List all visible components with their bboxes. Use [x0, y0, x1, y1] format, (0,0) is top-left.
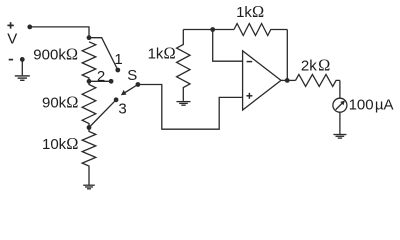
svg-text:1kΩ: 1kΩ — [148, 44, 176, 63]
switch contact 2 — [109, 79, 114, 84]
wire node mid2 to contact 3 — [89, 100, 116, 128]
svg-text:1kΩ: 1kΩ — [236, 2, 264, 21]
svg-text:S: S — [127, 67, 137, 84]
wire - terminal to ground — [21, 59, 23, 75]
wire + terminal to divider top — [30, 27, 89, 38]
svg-text:2: 2 — [97, 68, 105, 85]
resistor R1 900k — [82, 42, 96, 82]
node - terminal — [20, 57, 25, 62]
ground V source — [15, 75, 30, 77]
ground R4 — [177, 101, 191, 103]
node divider mid1 — [87, 79, 92, 84]
wire S to op-amp + input — [138, 85, 243, 130]
svg-text:3: 3 — [118, 101, 126, 118]
wire node top to contact 1 — [89, 38, 118, 70]
label + terminal — [7, 24, 13, 26]
svg-text:900kΩ: 900kΩ — [33, 45, 78, 64]
resistor R3 10k — [82, 128, 96, 185]
svg-text:V: V — [7, 30, 17, 47]
resistor R5 1k feedback — [234, 24, 287, 36]
svg-text:90kΩ: 90kΩ — [42, 92, 78, 111]
wire node to op-amp - input — [213, 30, 243, 62]
resistor R4 1k shunt — [177, 30, 190, 101]
svg-text:1: 1 — [114, 51, 122, 68]
label - terminal — [9, 59, 13, 61]
svg-text:100 µA: 100 µA — [349, 97, 394, 114]
wire op-amp output — [281, 79, 296, 81]
switch contact 3 — [114, 97, 119, 102]
wire node mid1 to contact 2 — [89, 80, 111, 82]
ground divider bottom — [83, 184, 95, 186]
ground meter — [333, 134, 346, 136]
resistor R6 2k — [296, 74, 340, 86]
current source meter — [333, 98, 347, 112]
node feedback left — [210, 27, 215, 32]
svg-text:2k Ω: 2k Ω — [301, 56, 330, 75]
op-amp U1 — [243, 51, 281, 110]
node divider top — [87, 35, 92, 40]
node divider mid2 — [87, 125, 92, 130]
node output — [285, 78, 290, 83]
wire feedback to output node — [286, 30, 288, 81]
switch contact 1 — [115, 68, 120, 73]
switch pole S — [136, 82, 141, 87]
node + terminal — [27, 25, 32, 30]
resistor R2 90k — [82, 81, 96, 127]
wire R6 to meter — [339, 80, 341, 98]
wire meter to ground — [339, 112, 341, 134]
svg-text:10kΩ: 10kΩ — [42, 134, 78, 153]
switch wiper arm with arrowhead — [125, 85, 138, 93]
wire top node — [183, 29, 234, 31]
